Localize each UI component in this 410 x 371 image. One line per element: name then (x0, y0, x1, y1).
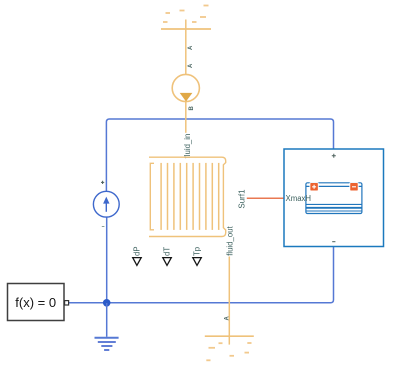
wire thermal (Surf1 to XmaxH) (247, 197, 284, 199)
svg-text:XmaxH: XmaxH (286, 194, 312, 203)
svg-text:dT: dT (162, 247, 171, 256)
wire fluid_out (heat exchanger to reservoir bottom) (228, 237, 230, 345)
pin + battery box (332, 154, 336, 158)
svg-text:A: A (188, 45, 194, 50)
svg-text:B: B (189, 106, 195, 111)
svg-text:Surf1: Surf1 (237, 189, 246, 209)
reservoir top bar (161, 28, 211, 30)
svg-text:f(x) = 0: f(x) = 0 (15, 295, 56, 310)
pin - battery box (332, 241, 335, 243)
wire fluid_in (source to heat exchanger) (185, 102, 187, 157)
probe Tp (192, 246, 201, 265)
battery subsystem box (284, 149, 384, 247)
svg-text:Tp: Tp (192, 246, 201, 256)
current source (blue circle with up arrow) (93, 191, 119, 217)
battery icon body (306, 183, 362, 214)
node junction (103, 299, 111, 307)
svg-text:A: A (188, 63, 194, 68)
label fluid_in (183, 133, 193, 159)
svg-text:fluid_in: fluid_in (183, 134, 192, 159)
heat exchanger left bracket (150, 163, 154, 230)
svg-text:fluid_out: fluid_out (226, 225, 235, 255)
probe dT (162, 247, 171, 266)
heat exchanger fins (161, 163, 219, 230)
svg-text:A: A (225, 316, 231, 321)
wire bottom (f(x) port to battery box bottom) (69, 247, 334, 303)
f(x) output port square (65, 301, 69, 305)
svg-text:dP: dP (132, 246, 141, 256)
ground (95, 303, 119, 350)
battery terminal + (310, 183, 318, 191)
pin + current source (101, 181, 104, 184)
heat exchanger pipe outline (149, 157, 226, 236)
reservoir bottom atmosphere dashes (206, 343, 251, 360)
reservoir top atmosphere dashes (163, 6, 209, 23)
wire source bottom to junction (106, 217, 108, 303)
wire top loop (source to battery box) (106, 119, 333, 192)
probe dP (132, 246, 141, 265)
wire fluid (reservoir to source) (185, 20, 187, 75)
reservoir bottom bar (205, 335, 254, 337)
f(x)=0 algebraic constraint block (8, 284, 65, 321)
battery terminal - (350, 183, 358, 191)
flow source (orange circle with down triangle) (172, 74, 199, 101)
pin - current source (102, 226, 105, 228)
label fluid_out (226, 222, 235, 257)
